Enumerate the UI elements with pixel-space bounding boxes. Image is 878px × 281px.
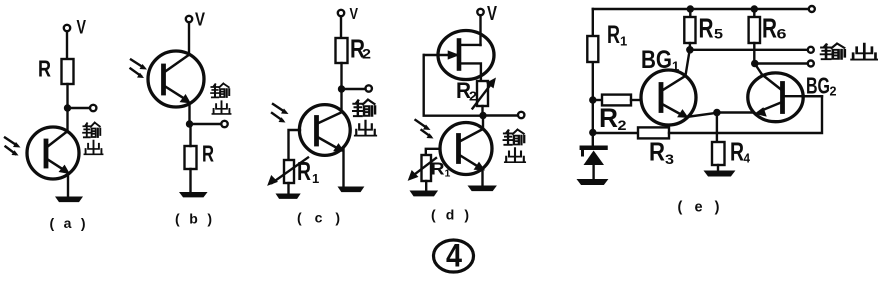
svg-text:1: 1 xyxy=(620,34,627,49)
svg-text:R: R xyxy=(431,159,445,179)
svg-text:(b): (b) xyxy=(175,211,212,227)
svg-text:R: R xyxy=(599,103,618,133)
svg-text:(a): (a) xyxy=(50,215,86,231)
svg-text:(c): (c) xyxy=(297,210,340,226)
svg-text:5: 5 xyxy=(714,26,723,42)
svg-text:1: 1 xyxy=(445,168,451,180)
svg-text:V: V xyxy=(350,6,359,23)
svg-text:6: 6 xyxy=(777,26,787,42)
svg-text:R: R xyxy=(607,21,620,49)
svg-text:R: R xyxy=(762,13,777,44)
svg-text:2: 2 xyxy=(469,89,477,104)
svg-text:V: V xyxy=(77,18,87,39)
svg-text:4: 4 xyxy=(744,151,751,166)
svg-text:V: V xyxy=(487,3,497,25)
svg-text:(d): (d) xyxy=(431,207,469,223)
svg-text:2: 2 xyxy=(362,46,371,62)
svg-text:R: R xyxy=(649,137,665,167)
svg-text:1: 1 xyxy=(312,171,319,186)
svg-text:R: R xyxy=(202,141,214,167)
svg-text:2: 2 xyxy=(830,84,837,99)
svg-text:(e): (e) xyxy=(678,200,720,216)
svg-text:R: R xyxy=(730,137,744,167)
svg-text:R: R xyxy=(699,13,714,44)
svg-text:4: 4 xyxy=(446,238,462,274)
svg-text:V: V xyxy=(195,10,205,30)
svg-text:R: R xyxy=(38,56,51,82)
svg-text:R: R xyxy=(297,156,311,186)
svg-text:BG: BG xyxy=(806,73,830,99)
svg-text:2: 2 xyxy=(618,117,627,133)
svg-text:3: 3 xyxy=(665,151,674,167)
